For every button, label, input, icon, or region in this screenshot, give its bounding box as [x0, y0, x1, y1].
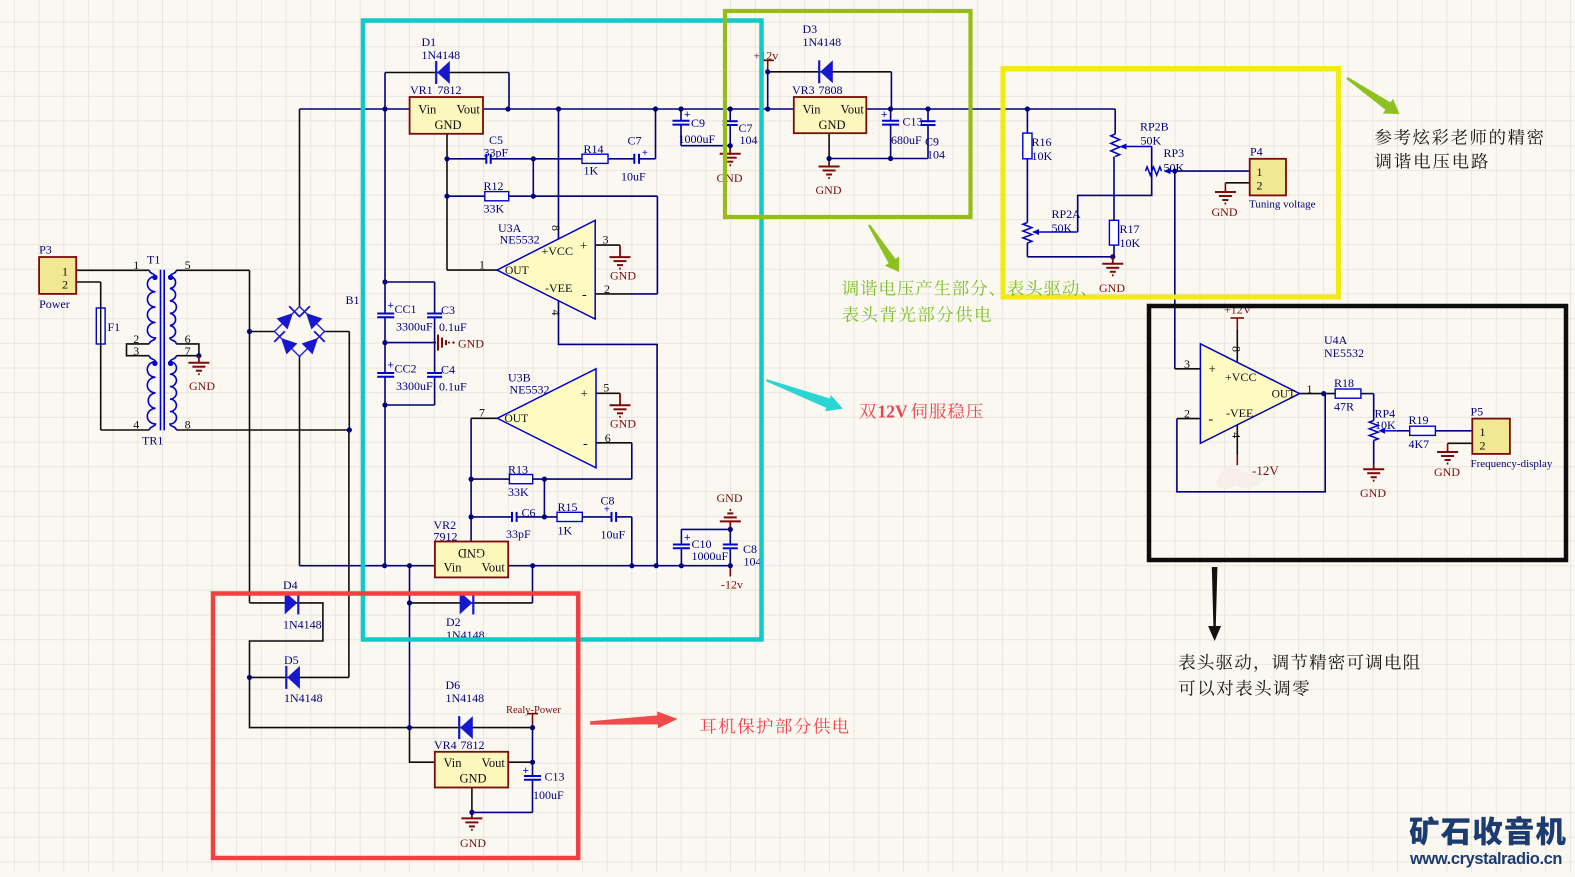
- svg-text:B1: B1: [346, 293, 360, 307]
- svg-text:-12v: -12v: [721, 578, 743, 592]
- svg-text:RP2A: RP2A: [1052, 207, 1082, 221]
- svg-text:GND: GND: [610, 269, 636, 283]
- svg-text:www.crystalradio.cn: www.crystalradio.cn: [1409, 850, 1563, 868]
- svg-text:1: 1: [1257, 165, 1263, 179]
- svg-text:NE5532: NE5532: [510, 383, 550, 397]
- svg-text:7: 7: [479, 406, 485, 420]
- svg-text:OUT: OUT: [1272, 389, 1296, 401]
- svg-text:3300uF: 3300uF: [396, 320, 433, 334]
- svg-text:1N4148: 1N4148: [284, 691, 323, 705]
- svg-text:1N4148: 1N4148: [803, 35, 842, 49]
- svg-text:4: 4: [549, 310, 563, 316]
- svg-text:RP2B: RP2B: [1140, 120, 1169, 134]
- svg-text:0.1uF: 0.1uF: [439, 380, 467, 394]
- svg-text:7812: 7812: [438, 83, 462, 97]
- svg-text:1N4148: 1N4148: [446, 691, 485, 705]
- svg-text:VR1: VR1: [410, 83, 433, 97]
- svg-text:6: 6: [605, 431, 611, 445]
- svg-text:-: -: [583, 437, 588, 452]
- svg-text:+: +: [642, 148, 648, 159]
- svg-text:1: 1: [479, 258, 485, 272]
- svg-text:GND: GND: [1212, 205, 1238, 219]
- svg-text:+VCC: +VCC: [542, 244, 573, 258]
- svg-text:4: 4: [133, 418, 139, 432]
- svg-text:104: 104: [927, 148, 945, 162]
- svg-text:+VCC: +VCC: [1225, 370, 1256, 384]
- svg-text:7912: 7912: [434, 530, 458, 544]
- svg-text:R14: R14: [584, 142, 604, 156]
- svg-text:2: 2: [604, 282, 610, 296]
- svg-text:C13: C13: [903, 115, 923, 129]
- svg-text:R17: R17: [1120, 222, 1140, 236]
- svg-text:GND: GND: [819, 118, 846, 132]
- svg-text:1K: 1K: [584, 164, 599, 178]
- svg-text:7: 7: [185, 344, 191, 358]
- svg-text:Vout: Vout: [457, 103, 481, 117]
- svg-text:GND: GND: [610, 417, 636, 431]
- svg-text:D5: D5: [284, 653, 299, 667]
- svg-text:VR3: VR3: [792, 83, 815, 97]
- svg-text:Vout: Vout: [841, 103, 865, 117]
- svg-text:Realy-Power: Realy-Power: [506, 705, 561, 716]
- svg-text:-VEE: -VEE: [1226, 406, 1253, 420]
- svg-text:47R: 47R: [1334, 400, 1354, 414]
- svg-text:GND: GND: [460, 836, 486, 850]
- svg-text:D3: D3: [803, 22, 818, 36]
- svg-text:+12v: +12v: [754, 49, 779, 63]
- svg-text:CC2: CC2: [395, 362, 417, 376]
- svg-text:1000uF: 1000uF: [692, 549, 729, 563]
- svg-text:100uF: 100uF: [533, 788, 564, 802]
- svg-text:4: 4: [1230, 432, 1244, 438]
- svg-text:1: 1: [133, 258, 139, 272]
- svg-text:1: 1: [62, 265, 68, 279]
- svg-text:GND: GND: [458, 546, 485, 560]
- svg-text:8: 8: [185, 418, 191, 432]
- svg-text:Vin: Vin: [418, 103, 437, 117]
- svg-text:3: 3: [1184, 357, 1190, 371]
- svg-text:D1: D1: [422, 35, 437, 49]
- svg-text:+: +: [604, 505, 610, 516]
- svg-text:5: 5: [603, 381, 609, 395]
- svg-text:D2: D2: [446, 615, 461, 629]
- svg-text:4K7: 4K7: [1409, 437, 1430, 451]
- svg-text:1N4148: 1N4148: [422, 48, 461, 62]
- svg-text:OUT: OUT: [505, 413, 529, 425]
- svg-text:GND: GND: [435, 118, 462, 132]
- svg-text:33pF: 33pF: [506, 527, 531, 541]
- svg-text:33K: 33K: [508, 485, 529, 499]
- svg-text:1N4148: 1N4148: [283, 618, 322, 632]
- svg-text:C9: C9: [691, 116, 705, 130]
- svg-text:D6: D6: [446, 678, 461, 692]
- svg-text:2: 2: [1480, 439, 1486, 453]
- svg-text:8: 8: [1230, 346, 1244, 352]
- svg-text:C3: C3: [441, 303, 455, 317]
- svg-text:C4: C4: [441, 363, 455, 377]
- svg-text:Frequency-display: Frequency-display: [1471, 458, 1553, 470]
- svg-text:1K: 1K: [558, 524, 573, 538]
- svg-text:Vout: Vout: [482, 561, 506, 575]
- svg-text:GND: GND: [717, 171, 743, 185]
- svg-text:104: 104: [744, 554, 762, 568]
- svg-text:33K: 33K: [484, 202, 505, 216]
- svg-text:1: 1: [1480, 425, 1486, 439]
- svg-text:R12: R12: [484, 179, 504, 193]
- svg-text:Power: Power: [39, 297, 70, 311]
- svg-text:GND: GND: [458, 337, 484, 351]
- svg-text:+: +: [684, 532, 690, 544]
- svg-text:-VEE: -VEE: [545, 281, 572, 295]
- svg-text:D4: D4: [283, 578, 298, 592]
- svg-text:+: +: [1209, 361, 1216, 376]
- svg-text:5: 5: [185, 258, 191, 272]
- svg-text:+: +: [388, 360, 394, 372]
- svg-text:33pF: 33pF: [484, 146, 509, 160]
- svg-text:12V: 12V: [878, 402, 909, 422]
- svg-text:GND: GND: [1360, 486, 1386, 500]
- svg-text:+: +: [388, 300, 394, 312]
- svg-text:F1: F1: [108, 320, 121, 334]
- svg-text:+: +: [581, 386, 588, 401]
- svg-text:CC1: CC1: [395, 302, 417, 316]
- svg-text:-: -: [1209, 412, 1214, 427]
- svg-text:3: 3: [603, 233, 609, 247]
- svg-text:10uF: 10uF: [621, 170, 646, 184]
- svg-text:C13: C13: [545, 770, 565, 784]
- svg-text:7812: 7812: [461, 738, 485, 752]
- svg-text:50K: 50K: [1052, 221, 1073, 235]
- svg-text:3: 3: [133, 344, 139, 358]
- svg-text:50K: 50K: [1141, 134, 1162, 148]
- svg-text:10K: 10K: [1120, 236, 1141, 250]
- svg-text:8: 8: [549, 225, 563, 231]
- svg-text:1: 1: [1307, 382, 1313, 396]
- svg-text:GND: GND: [1434, 465, 1460, 479]
- svg-text:C9: C9: [925, 135, 939, 149]
- svg-text:R16: R16: [1032, 135, 1052, 149]
- svg-text:NE5532: NE5532: [1324, 346, 1364, 360]
- svg-text:GND: GND: [1099, 281, 1125, 295]
- svg-text:R13: R13: [508, 463, 528, 477]
- svg-text:2: 2: [1184, 407, 1190, 421]
- svg-text:Tuning voltage: Tuning voltage: [1249, 199, 1316, 211]
- svg-text:Vin: Vin: [803, 103, 822, 117]
- svg-text:10K: 10K: [1375, 418, 1396, 432]
- svg-text:+: +: [881, 109, 887, 121]
- svg-text:+: +: [523, 765, 529, 777]
- svg-text:GND: GND: [460, 772, 487, 786]
- svg-text:P5: P5: [1471, 405, 1484, 419]
- svg-text:3300uF: 3300uF: [396, 379, 433, 393]
- svg-text:GND: GND: [717, 491, 743, 505]
- svg-text:Vout: Vout: [482, 756, 506, 770]
- svg-text:RP3: RP3: [1164, 146, 1185, 160]
- svg-text:R18: R18: [1334, 376, 1354, 390]
- svg-text:TR1: TR1: [142, 434, 163, 448]
- svg-text:T1: T1: [147, 253, 160, 267]
- svg-text:+: +: [580, 238, 587, 253]
- svg-text:VR4: VR4: [434, 738, 457, 752]
- svg-text:0.1uF: 0.1uF: [439, 320, 467, 334]
- svg-text:2: 2: [62, 278, 68, 292]
- svg-text:GND: GND: [189, 379, 215, 393]
- svg-text:7808: 7808: [819, 83, 843, 97]
- svg-text:1000uF: 1000uF: [679, 132, 716, 146]
- svg-text:P4: P4: [1250, 145, 1263, 159]
- svg-text:OUT: OUT: [505, 265, 529, 277]
- svg-text:Vin: Vin: [444, 561, 463, 575]
- svg-text:U4A: U4A: [1324, 333, 1348, 347]
- svg-text:10uF: 10uF: [601, 527, 626, 541]
- svg-text:+: +: [684, 109, 690, 121]
- svg-text:P3: P3: [39, 243, 52, 257]
- svg-text:680uF: 680uF: [891, 133, 922, 147]
- svg-text:C6: C6: [522, 505, 536, 519]
- svg-text:-: -: [582, 288, 587, 303]
- svg-text:Vin: Vin: [444, 756, 463, 770]
- svg-text:C7: C7: [628, 134, 642, 148]
- svg-text:NE5532: NE5532: [500, 233, 540, 247]
- svg-text:GND: GND: [816, 183, 842, 197]
- svg-text:R15: R15: [558, 500, 578, 514]
- svg-text:2: 2: [1257, 179, 1263, 193]
- svg-text:10K: 10K: [1032, 149, 1053, 163]
- svg-text:R19: R19: [1409, 413, 1429, 427]
- svg-text:104: 104: [740, 133, 758, 147]
